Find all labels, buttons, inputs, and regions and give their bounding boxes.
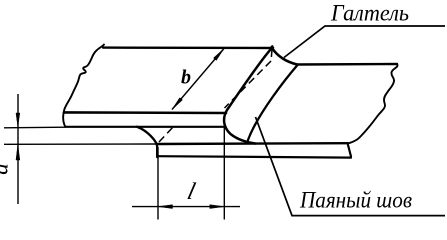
upper plate left break edge (jagged) [63,45,104,127]
extension line a top [4,126,66,129]
hidden edge dashed (left, lower plate end) [159,126,175,143]
svg-text:l: l [185,178,199,205]
extension line a bottom / lower top edge extension [4,143,157,145]
extension line l left (vertical) [157,147,159,220]
fillet top curve (Галтель) [272,48,297,65]
upper plate front face bottom edge [66,126,225,128]
peak tip [270,46,274,49]
arrow a bottom [16,145,20,160]
arrow a top [16,113,20,127]
arrow b top [214,49,225,61]
lower plate back edge [297,63,397,66]
lower plate front face right edge [348,143,352,157]
svg-text:b: b [181,67,191,89]
svg-text:Паяный шов: Паяный шов [299,188,412,213]
leader line Паяный шов [256,117,446,216]
hidden edge dashed (slant inside fillet) [225,61,272,108]
hidden edge dashed (vertical at peak) [271,50,272,61]
extension line l right (vertical) [223,124,225,220]
dimension line b [172,49,224,110]
left solder fillet curve + lower plate left end edge [137,127,157,157]
arrow l left [158,205,172,209]
dimension line l [132,206,240,208]
upper plate top front edge [64,111,226,114]
upper plate top back edge [103,46,272,49]
lower plate front top edge [157,142,348,145]
arrow l right [210,205,224,209]
leader line Галтель [284,26,445,58]
solder fillet toe line L2 [248,65,298,140]
svg-text:Галтель: Галтель [330,1,409,26]
dimension line a (vertical) [17,94,19,204]
lower plate right break edge (jagged) [350,64,398,143]
arrow b bottom [172,98,183,110]
lower plate front bottom edge [157,156,351,157]
upper plate right end slant + front solder fillet curve [224,48,272,144]
svg-text:a: a [0,163,13,175]
